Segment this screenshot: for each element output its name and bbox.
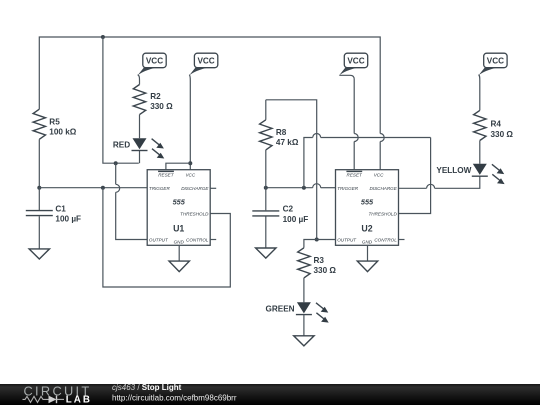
wire R4 to YELLOW LED [479,141,481,164]
svg-text:C1: C1 [55,204,66,213]
hop vertical bulge right at 380.2,137.5 [380,134,384,142]
wire VCC2 down to U1 VCC pin [189,84,191,170]
pin stub U2 CONTROL [399,239,405,241]
wire U2 output line [304,240,336,248]
svg-text:THRESHOLD: THRESHOLD [180,212,209,217]
vcc flag VCC2 [189,53,218,84]
node junction R8 riser / output2 [315,238,319,242]
svg-text:330 Ω: 330 Ω [491,130,514,139]
hop vertical bulge right at 354.2,137.5 [354,134,358,142]
svg-text:330 Ω: 330 Ω [314,266,337,275]
svg-text:R3: R3 [314,256,325,265]
svg-text:OUTPUT: OUTPUT [337,238,357,243]
wire VCC3 lower part [353,142,355,170]
svg-text:DISCHARGE: DISCHARGE [369,186,397,191]
svg-text:100 µF: 100 µF [55,215,81,224]
svg-text:R2: R2 [150,92,161,101]
LED YELLOW [436,164,504,184]
svg-text:CONTROL: CONTROL [186,238,209,243]
svg-text:VCC: VCC [197,57,214,66]
wire threshold rail down to U2 THRESHOLD [399,138,431,214]
wire discharge line right part [435,176,480,188]
node junction LED cathode branch [114,161,118,165]
pin stub U1 CONTROL [210,239,216,241]
svg-text:TRIGGER: TRIGGER [149,186,171,191]
LED RED [113,138,164,158]
wire branch from cathode line to U1 output (with hop) [115,163,117,184]
svg-text:C2: C2 [283,205,294,214]
svg-text:CONTROL: CONTROL [374,238,397,243]
node junction trigger/threshold loop [101,186,105,190]
hop horizontal bulge up at 316.7,137.5 [313,134,321,138]
svg-text:TRIGGER: TRIGGER [337,186,359,191]
node junction top rail branch [101,35,105,39]
svg-text:100 kΩ: 100 kΩ [49,127,76,136]
svg-text:OUTPUT: OUTPUT [149,238,169,243]
IC U1 555 timer [147,170,210,246]
node junction trigger2 to threshold riser [302,186,306,190]
wire U2 discharge to YELLOW LED [399,187,427,189]
svg-text:100 µF: 100 µF [283,215,309,224]
wire U2 trigger line right part [321,187,336,189]
wire threshold feedback loop U1 [103,188,230,287]
resistor R3 [298,248,310,278]
wire vertical from top rail down to LED cathode line [103,37,139,163]
node junction R8/C2/trigger2 [264,186,268,190]
node junction R5/C1/trigger [37,186,41,190]
wire R3 to GREEN LED [303,278,305,302]
svg-text:GREEN: GREEN [265,305,294,314]
svg-text:VCC: VCC [347,57,364,66]
svg-text:R5: R5 [49,117,60,126]
svg-text:GND: GND [362,239,373,244]
(decorative footer) [0,383,540,405]
wire R2 to RED LED [139,115,141,139]
resistor R8 [260,100,317,240]
svg-text:47 kΩ: 47 kΩ [276,138,299,147]
svg-text:RED: RED [113,141,130,150]
wire VCC3 down to U2 RESET (hop at threshold rail) [353,84,355,134]
wire GREEN LED to ground [303,315,305,336]
svg-text:VCC: VCC [374,173,384,178]
svg-text:U2: U2 [361,223,372,233]
svg-text:RESET: RESET [347,173,364,178]
capacitor C2 [252,188,308,248]
vcc flag VCC3 [339,53,368,84]
hop horizontal bulge up at 316.7,187.7 [313,184,321,188]
wire R5 bottom to trigger node [38,139,40,187]
resistor R5 [33,109,45,139]
ground under U2 [357,261,377,272]
svg-text:R4: R4 [491,120,502,129]
vcc flag VCC1 [137,53,166,84]
wire top rail continuation to U2 VCC pin [379,142,381,170]
wire riser from trigger2 node up to threshold rail [304,138,313,188]
hop horizontal bulge up at 430.6,188.3 [427,184,435,188]
node junction reset jog / vcc wire [188,161,192,165]
resistor R2 [133,85,145,115]
pin stub U1 DISCHARGE [210,187,216,189]
wire U2 GND to ground [367,245,369,261]
svg-text:YELLOW: YELLOW [436,166,471,175]
ground under U1 [169,261,189,272]
svg-text:http://circuitlab.com/cefbm98c: http://circuitlab.com/cefbm98c69brr [112,394,237,403]
svg-text:VCC: VCC [487,57,504,66]
vcc flag VCC4 [478,53,507,110]
svg-text:VCC: VCC [146,57,163,66]
IC U2 555 timer [336,170,399,246]
svg-text:330 Ω: 330 Ω [150,102,173,111]
svg-text:VCC: VCC [185,173,195,178]
svg-text:555: 555 [173,198,186,207]
wire top rail OUT1 [39,37,380,134]
svg-text:R8: R8 [276,128,287,137]
svg-text:555: 555 [361,198,374,207]
resistor R4 [474,110,486,140]
wire RED LED cathode drop [139,151,141,164]
svg-text:cjs463 / Stop Light: cjs463 / Stop Light [112,383,182,392]
LED GREEN [265,302,328,322]
hop vertical bulge right at 115.7,188.3 [116,184,120,192]
wire U2 trigger line from R8/C2 node [266,187,313,189]
ground under C2 [256,248,276,258]
wire U1 trigger line [39,187,147,189]
svg-text:DISCHARGE: DISCHARGE [181,186,209,191]
ground under C1 [29,249,49,259]
wire U1 GND to ground [178,245,180,261]
svg-text:THRESHOLD: THRESHOLD [368,212,397,217]
wire branch continues to U1 OUTPUT pin [116,192,148,239]
wire threshold rail mid [321,137,431,139]
svg-text:GND: GND [174,239,185,244]
capacitor C1 [26,188,81,249]
svg-text:LAB: LAB [66,395,92,405]
wire U1 RESET jog [166,163,190,170]
ground under GREEN LED [294,336,314,346]
svg-text:RESET: RESET [158,173,175,178]
svg-text:U1: U1 [173,223,184,233]
